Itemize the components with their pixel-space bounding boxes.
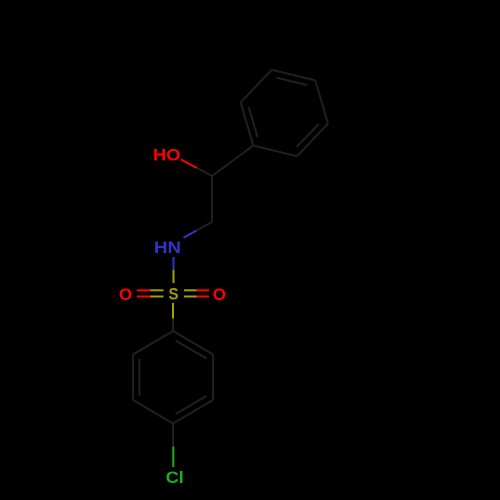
benzene ring top: edge P2-P3 [241, 70, 272, 103]
svg-text:O: O [119, 285, 132, 304]
benzene ring top: edge P3-P4 [272, 70, 316, 81]
benzene ring top: edge P5-P6 [297, 124, 328, 157]
svg-text:HN: HN [154, 238, 181, 257]
double bond S=O left, upper line, S half [150, 289, 163, 291]
benzene ring bottom: edge B3-B4 inner double line [176, 396, 207, 414]
bond CH2-N nitrogen half [184, 231, 197, 238]
benzene ring bottom: edge B2-B3 [212, 355, 214, 401]
benzene ring top: edge P1-P2 inner double line [249, 107, 258, 137]
svg-text:S: S [169, 284, 179, 303]
bond S-C(ring) carbon half [172, 319, 174, 332]
double bond S=O right, lower line, S half [184, 296, 197, 298]
bond C2-CH2 [211, 176, 213, 222]
benzene ring top: edge P5-P6 inner double line [297, 124, 319, 147]
svg-text:O: O [213, 285, 226, 304]
bond CH2-N carbon half [197, 222, 213, 231]
svg-text:HO: HO [153, 145, 181, 164]
bond O(H)-C2 red half [181, 160, 197, 169]
benzene ring top: edge P1-P2 [241, 102, 254, 145]
benzene ring bottom: edge B4-B5 [133, 400, 173, 424]
benzene ring bottom: edge B6-B1 [133, 331, 173, 355]
benzene ring top: edge P4-P5 [315, 80, 328, 123]
double bond S=O right, upper line, S half [184, 289, 197, 291]
svg-text:Cl: Cl [166, 468, 184, 487]
benzene ring bottom: edge B5-B6 [132, 355, 134, 401]
bond N-S sulfur half [173, 270, 175, 283]
benzene ring bottom: edge B3-B4 [173, 400, 213, 424]
double bond S=O right, upper line, O half [197, 289, 210, 291]
benzene ring bottom: edge B5-B6 inner double line [139, 359, 141, 396]
benzene ring bottom: edge B1-B2 [173, 331, 213, 355]
bond N-S nitrogen half [173, 257, 175, 270]
double bond S=O right, lower line, O half [197, 296, 210, 298]
bond S-C(ring) sulfur half [172, 303, 174, 319]
bond O(H)-C2 carbon half [197, 168, 212, 176]
double bond S=O left, lower line, S half [150, 296, 163, 298]
benzene ring top: edge P3-P4 inner double line [277, 78, 308, 85]
double bond S=O left, lower line, O half [137, 296, 150, 298]
double bond S=O left, upper line, O half [137, 289, 150, 291]
bond C(ring)-Cl chlorine half [172, 447, 174, 468]
bond C2-C3(ipso) [212, 146, 253, 176]
bond C(ring)-Cl carbon half [172, 424, 174, 447]
benzene ring top: edge P6-P1 [253, 146, 297, 157]
benzene ring bottom: edge B1-B2 inner double line [176, 341, 207, 359]
